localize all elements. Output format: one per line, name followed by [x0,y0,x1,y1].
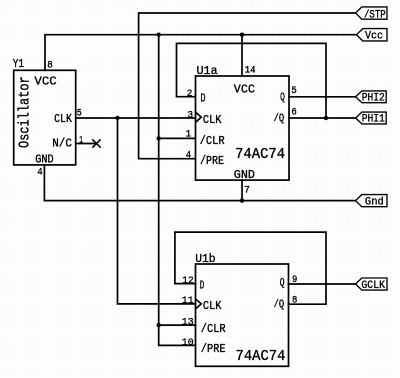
svg-text:13: 13 [182,316,194,328]
svg-text:74AC74: 74AC74 [236,349,286,365]
svg-text:PHI2: PHI2 [362,92,385,104]
svg-text:12: 12 [182,275,193,287]
svg-text:/STP: /STP [364,10,386,22]
svg-text:N/C: N/C [52,137,72,151]
svg-text:5: 5 [291,85,296,97]
svg-text:Gnd: Gnd [365,196,384,208]
svg-text:GND: GND [35,152,53,166]
svg-text:10: 10 [182,337,194,349]
svg-text:U1a: U1a [197,64,218,78]
svg-text:CLK: CLK [203,299,222,313]
svg-text:6: 6 [291,107,296,119]
svg-text:14: 14 [245,64,256,76]
svg-text:/PRE: /PRE [201,342,226,356]
svg-text:Vcc: Vcc [365,31,383,43]
svg-text:1: 1 [79,135,83,147]
svg-text:VCC: VCC [234,82,255,96]
svg-text:1: 1 [186,128,191,140]
svg-text:D: D [200,279,205,293]
svg-text:/CLR: /CLR [201,322,226,336]
svg-text:Oscillator: Oscillator [17,76,33,148]
svg-text:3: 3 [188,109,194,121]
svg-text:4: 4 [186,149,191,161]
svg-text:U1b: U1b [195,252,215,266]
svg-text:11: 11 [182,295,194,307]
svg-text:9: 9 [292,274,297,286]
svg-text:D: D [200,92,205,106]
svg-text:/Q: /Q [274,113,285,125]
svg-text:CLK: CLK [203,113,222,127]
svg-text:GND: GND [234,168,255,182]
svg-text:74AC74: 74AC74 [235,147,285,163]
svg-text:Q: Q [280,92,285,104]
svg-text:Q: Q [280,278,285,290]
svg-text:8: 8 [292,294,297,306]
svg-text:PHI1: PHI1 [362,113,385,125]
svg-text:8: 8 [47,59,53,71]
svg-text:5: 5 [77,108,82,120]
svg-text:Y1: Y1 [13,57,24,71]
svg-text:/PRE: /PRE [200,154,224,168]
svg-text:/CLR: /CLR [200,134,225,148]
svg-text:4: 4 [37,167,43,179]
svg-text:VCC: VCC [34,74,56,88]
svg-text:2: 2 [187,88,193,100]
svg-text:CLK: CLK [54,112,73,126]
svg-text:/Q: /Q [274,299,285,311]
svg-text:7: 7 [244,184,250,196]
svg-text:GCLK: GCLK [361,280,385,292]
